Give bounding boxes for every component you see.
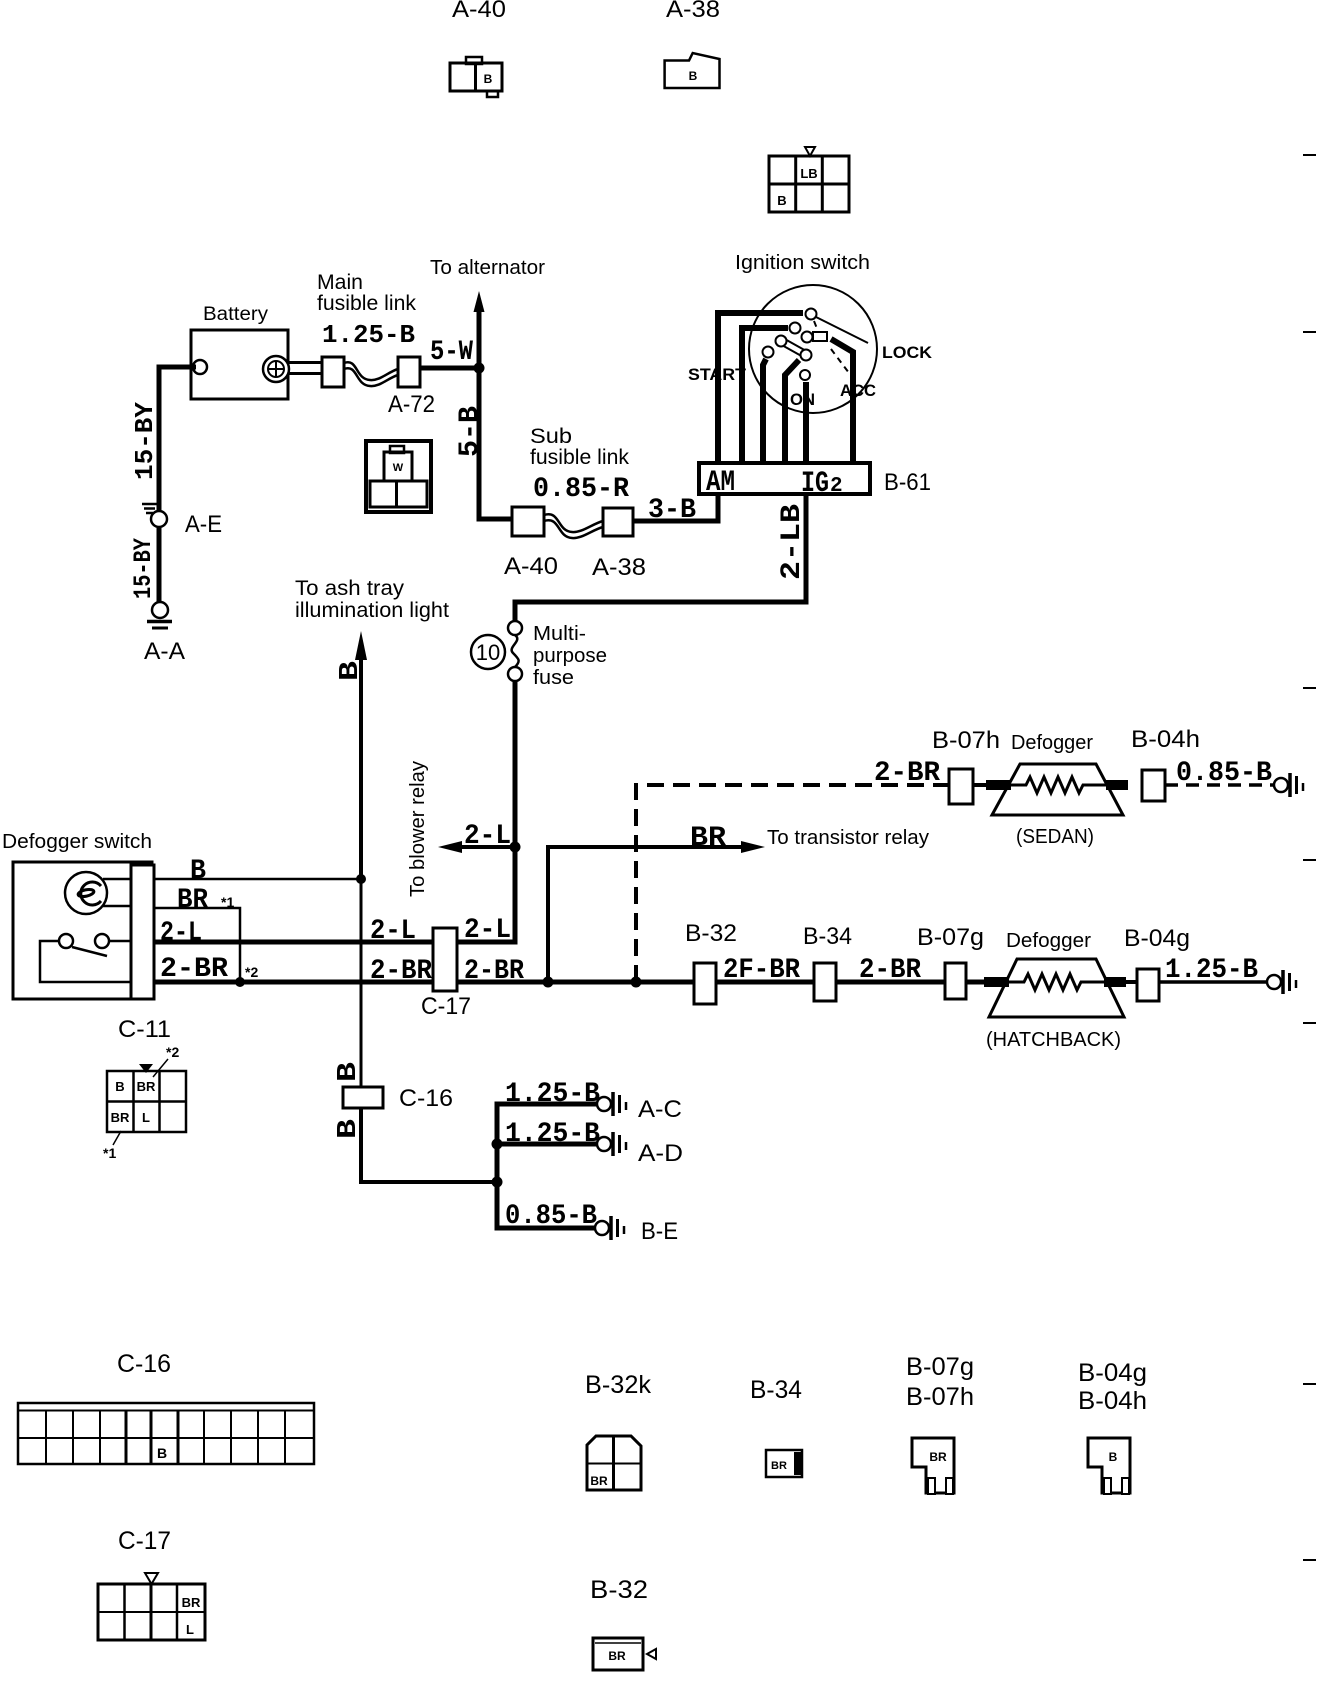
- ignition switch wire 3: [763, 359, 766, 463]
- svg-text:2-BR: 2-BR: [464, 956, 524, 987]
- svg-text:A-E: A-E: [185, 511, 222, 538]
- svg-text:Multi-: Multi-: [533, 623, 586, 645]
- svg-text:(SEDAN): (SEDAN): [1016, 826, 1094, 848]
- wire 2-LB from IG2: [515, 494, 806, 622]
- defogger switch lamp: [65, 872, 107, 914]
- svg-text:BR: BR: [608, 1649, 626, 1663]
- wire branch up to A-C: [497, 1104, 599, 1182]
- wire fuse down to 2-L junction: [513, 681, 518, 847]
- wire to alternator with arrow: [474, 291, 485, 368]
- wire branch down to B-E: [497, 1182, 597, 1228]
- svg-text:BR: BR: [690, 823, 726, 854]
- ignition switch rotor double-line: [780, 338, 808, 358]
- wire battery to main fusible link (double cable): [289, 363, 322, 374]
- ignition switch body circle: [749, 285, 877, 413]
- svg-text:C-16: C-16: [399, 1085, 453, 1112]
- svg-text:B-07h: B-07h: [906, 1383, 974, 1411]
- svg-text:Sub: Sub: [530, 425, 572, 448]
- svg-text:C-11: C-11: [118, 1016, 171, 1043]
- svg-text:B: B: [777, 193, 786, 208]
- node junction at alternator branch: [474, 363, 485, 374]
- svg-text:ON: ON: [790, 390, 815, 409]
- svg-text:To transistor relay: To transistor relay: [767, 827, 929, 849]
- svg-text:2-L: 2-L: [464, 915, 511, 946]
- svg-text:0.85-B: 0.85-B: [505, 1201, 597, 1232]
- connector icon B-61 (ignition connector face): [769, 147, 849, 212]
- svg-text:B-04h: B-04h: [1078, 1387, 1147, 1415]
- node junction BR to 2-BR: [235, 977, 245, 987]
- ignition switch wire 4 (rotor feed): [785, 360, 799, 463]
- svg-text:1.25-B: 1.25-B: [505, 1119, 600, 1150]
- svg-text:LB: LB: [800, 166, 817, 181]
- ground B-E: [595, 1216, 624, 1240]
- svg-text:B: B: [334, 1062, 364, 1082]
- svg-text:Ignition switch: Ignition switch: [735, 252, 870, 274]
- connector icon A-40 (top): [450, 57, 502, 97]
- svg-text:A-38: A-38: [592, 554, 646, 581]
- svg-text:A-D: A-D: [638, 1140, 683, 1167]
- svg-text:C-17: C-17: [421, 993, 471, 1020]
- svg-text:purpose: purpose: [533, 645, 607, 667]
- svg-text:2-BR: 2-BR: [160, 954, 228, 985]
- ground ring A-E: [142, 504, 167, 527]
- svg-text:L: L: [186, 1622, 194, 1637]
- ignition switch LOCK pointer line: [816, 317, 868, 343]
- connector B-07h: [949, 769, 973, 804]
- connector C-16 (inline): [343, 1087, 383, 1108]
- wire B-04g to ground: [1159, 980, 1267, 984]
- svg-text:illumination light: illumination light: [295, 599, 449, 622]
- svg-text:A-72: A-72: [388, 391, 435, 418]
- svg-text:To alternator: To alternator: [430, 257, 545, 279]
- svg-text:BR: BR: [771, 1460, 787, 1472]
- svg-text:BR: BR: [182, 1595, 201, 1610]
- svg-text:10: 10: [476, 640, 500, 665]
- svg-text:3-B: 3-B: [648, 495, 696, 526]
- svg-text:B-34: B-34: [750, 1376, 802, 1404]
- connector icon A-38 (top): [665, 53, 720, 88]
- svg-text:B-07g: B-07g: [917, 924, 984, 951]
- svg-text:B: B: [190, 856, 206, 887]
- svg-text:B: B: [336, 661, 366, 681]
- ignition switch wire AM: [718, 313, 803, 463]
- svg-text:2-BR: 2-BR: [370, 956, 432, 987]
- ignition switch wire 2: [742, 328, 788, 463]
- svg-text:B-32: B-32: [590, 1576, 648, 1604]
- connector B-32 (inline): [694, 963, 716, 1004]
- connector B-04g (inline): [1137, 969, 1159, 1001]
- svg-text:W: W: [393, 462, 404, 474]
- main fusible link connector box 1: [322, 357, 344, 387]
- wire 2-BR right of C-17: [457, 980, 700, 985]
- svg-text:ACC: ACC: [840, 381, 876, 400]
- svg-text:2-BR: 2-BR: [859, 955, 921, 986]
- svg-text:A-A: A-A: [144, 638, 185, 665]
- wire branch to A-D: [497, 1142, 599, 1147]
- svg-text:2: 2: [830, 475, 843, 498]
- wire 2-L down to C-17: [457, 847, 515, 942]
- svg-text:2-L: 2-L: [160, 918, 202, 949]
- multi-purpose fuse: [471, 621, 522, 681]
- svg-text:*2: *2: [245, 964, 258, 980]
- svg-text:BR: BR: [590, 1474, 608, 1488]
- connector icon B-07 (bottom): [912, 1438, 954, 1494]
- svg-text:B: B: [689, 69, 698, 83]
- connector icon C-16 (bottom strip): [18, 1403, 314, 1464]
- wire 3-B: [633, 494, 718, 521]
- svg-text:A-C: A-C: [638, 1096, 682, 1123]
- svg-text:B-61: B-61: [884, 469, 931, 496]
- svg-text:B: B: [115, 1079, 124, 1094]
- page edge tick marks: [1303, 155, 1316, 1560]
- svg-text:B-32: B-32: [685, 920, 737, 947]
- wire BR to transistor relay with arrow: [548, 841, 765, 982]
- svg-text:C-17: C-17: [118, 1527, 171, 1555]
- wire B from switch: [154, 878, 361, 881]
- svg-text:B-07g: B-07g: [906, 1353, 974, 1381]
- svg-text:2-BR: 2-BR: [874, 758, 940, 789]
- svg-text:To blower relay: To blower relay: [407, 761, 429, 897]
- svg-text:B-04g: B-04g: [1124, 925, 1190, 952]
- svg-text:BR: BR: [137, 1079, 156, 1094]
- svg-text:fusible link: fusible link: [317, 292, 416, 315]
- wire battery negative 15-BY: [159, 367, 196, 603]
- svg-text:START: START: [688, 365, 747, 384]
- wire 2-L fuse branch with blower arrow: [438, 841, 515, 853]
- defogger element (SEDAN): [986, 764, 1128, 815]
- svg-text:To ash tray: To ash tray: [295, 577, 405, 600]
- ground (sedan defogger): [1274, 773, 1303, 797]
- main fusible link wavy wire: [344, 362, 398, 386]
- wire 2-BR from switch to C-17: [154, 980, 433, 985]
- svg-text:B-32k: B-32k: [585, 1371, 652, 1399]
- connector icon B-32 (bottom): [593, 1638, 656, 1670]
- ground A-C: [597, 1092, 626, 1116]
- svg-text:BR: BR: [177, 885, 208, 916]
- ground A-A: [147, 602, 172, 628]
- svg-text:L: L: [142, 1110, 150, 1125]
- svg-text:A-40: A-40: [504, 553, 558, 580]
- node junction ground branch: [492, 1177, 503, 1188]
- connector B-34 (inline): [814, 963, 836, 1001]
- ignition switch dashed lines: [814, 321, 849, 373]
- sub fusible link connector box A-38: [603, 508, 633, 536]
- svg-text:B: B: [1109, 1450, 1118, 1464]
- defogger switch connector bar: [131, 865, 154, 999]
- dashed wire to sedan defogger: [636, 785, 949, 982]
- wire B-07h to defogger: [973, 783, 992, 787]
- defogger element (HATCHBACK): [984, 959, 1126, 1017]
- svg-text:2-L: 2-L: [464, 821, 511, 852]
- svg-text:C-16: C-16: [117, 1350, 171, 1378]
- wire 2-BR to hatchback defogger: [700, 980, 990, 985]
- svg-text:BR: BR: [929, 1450, 947, 1464]
- defogger switch internal wires: [40, 879, 131, 982]
- svg-text:fusible link: fusible link: [530, 446, 629, 469]
- connector C-17 (in line): [433, 928, 457, 991]
- svg-text:15-BY: 15-BY: [130, 402, 160, 480]
- node junction 2-L: [510, 842, 521, 853]
- connector icon A-72 face: [366, 441, 431, 512]
- wire B down through C-16: [360, 879, 363, 1087]
- wire B to ground branch: [361, 1108, 497, 1182]
- svg-text:2-LB: 2-LB: [777, 504, 808, 580]
- main fusible link connector box 2 (A-72): [398, 357, 420, 387]
- svg-text:B-34: B-34: [803, 923, 852, 950]
- defogger switch body: [13, 862, 152, 999]
- ignition switch wire ON: [803, 382, 809, 463]
- svg-text:B-E: B-E: [641, 1218, 678, 1245]
- wire B to ash tray with arrow: [355, 631, 367, 879]
- svg-text:B-07h: B-07h: [932, 727, 1000, 754]
- svg-text:Battery: Battery: [203, 304, 269, 325]
- svg-text:Defogger: Defogger: [1011, 732, 1093, 754]
- svg-text:15-BY: 15-BY: [129, 538, 158, 599]
- node junction B: [356, 874, 366, 884]
- node junction dashed branch: [631, 977, 642, 988]
- svg-text:Defogger switch: Defogger switch: [2, 831, 152, 853]
- connector icon B-34 (bottom): [766, 1450, 803, 1477]
- svg-text:fuse: fuse: [533, 667, 574, 689]
- svg-text:*1: *1: [103, 1145, 116, 1161]
- svg-text:5-B: 5-B: [455, 406, 486, 457]
- ignition switch key rectangle: [813, 332, 827, 341]
- node junction BR riser: [543, 977, 554, 988]
- svg-text:Defogger: Defogger: [1006, 930, 1091, 952]
- svg-text:B-04g: B-04g: [1078, 1359, 1147, 1387]
- svg-text:B: B: [484, 72, 493, 86]
- svg-text:B: B: [157, 1445, 167, 1461]
- dashed wire B-04h to ground: [1165, 783, 1274, 787]
- svg-text:A-38: A-38: [666, 0, 720, 23]
- svg-text:5-W: 5-W: [430, 337, 473, 368]
- svg-text:BR: BR: [111, 1110, 130, 1125]
- connector icon C-17 (bottom): [98, 1573, 205, 1640]
- connector icon C-11: [107, 1059, 186, 1145]
- svg-text:A-40: A-40: [452, 0, 506, 23]
- svg-text:B-04h: B-04h: [1131, 726, 1200, 753]
- sub fusible link wavy wire: [544, 514, 603, 538]
- ignition switch wire ACC: [831, 339, 853, 463]
- svg-text:Main: Main: [317, 271, 363, 294]
- wire 5-B down to sub fusible link: [479, 368, 512, 519]
- svg-text:2-L: 2-L: [370, 916, 416, 947]
- svg-text:LOCK: LOCK: [882, 343, 933, 362]
- wire defogger to B-04g: [1124, 980, 1142, 984]
- svg-text:1.25-B: 1.25-B: [505, 1079, 600, 1110]
- svg-text:1.25-B: 1.25-B: [322, 320, 415, 350]
- ignition switch contact circles: [763, 309, 817, 381]
- connector B-04h: [1142, 770, 1165, 801]
- connector B-07g (inline): [945, 963, 966, 999]
- ground (hatchback defogger): [1267, 970, 1296, 994]
- svg-text:*1: *1: [221, 894, 234, 910]
- defogger switch contacts: [59, 934, 109, 956]
- ignition switch terminal box AM IG2: [699, 463, 870, 494]
- connector icon B-32k: [587, 1436, 641, 1490]
- svg-text:(HATCHBACK): (HATCHBACK): [986, 1029, 1121, 1051]
- svg-text:AM: AM: [706, 466, 735, 500]
- svg-text:0.85-R: 0.85-R: [533, 474, 629, 505]
- svg-text:*2: *2: [166, 1044, 179, 1060]
- ground A-D: [597, 1132, 626, 1156]
- connector icon B-04 (bottom): [1088, 1438, 1130, 1494]
- wire BR from switch: [154, 908, 240, 982]
- node junction A-D: [492, 1139, 503, 1150]
- svg-text:2F-BR: 2F-BR: [723, 955, 800, 986]
- wire 2-L from switch to C-17: [154, 940, 433, 945]
- battery: [191, 330, 289, 399]
- wire 5-W: [420, 366, 479, 371]
- sub fusible link connector box A-40: [512, 507, 544, 536]
